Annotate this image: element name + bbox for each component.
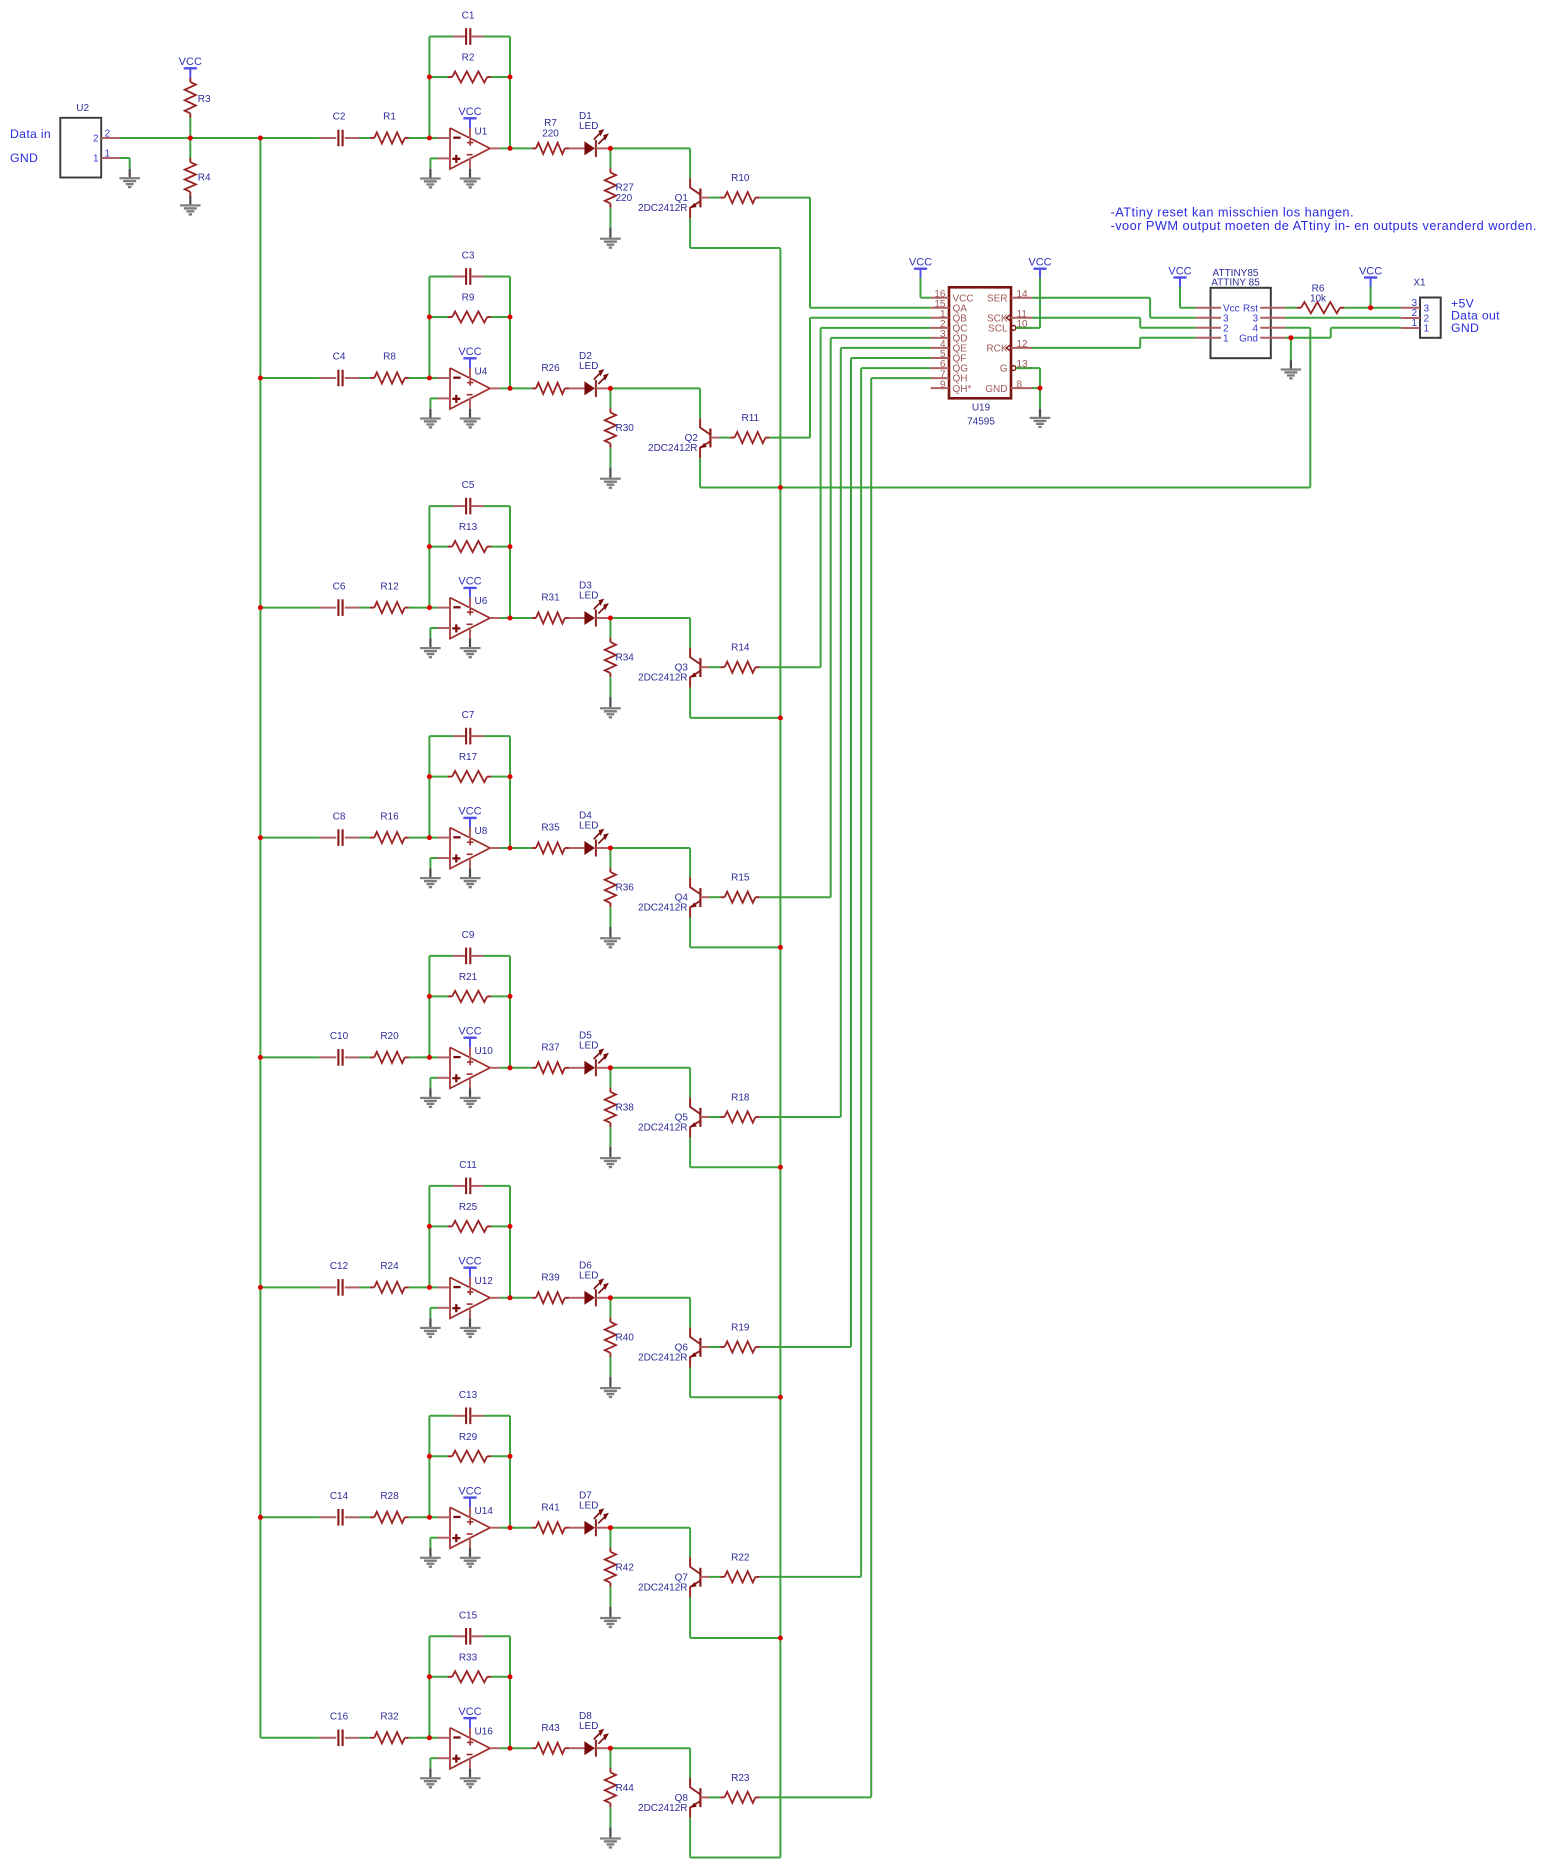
node feedback left U10	[427, 994, 432, 999]
pin 12 RCK U19	[986, 339, 1032, 355]
capacitor C1	[429, 11, 510, 45]
capacitor C9	[429, 930, 510, 964]
wire feedback right rail	[509, 736, 511, 848]
wire non-inverting input to ground	[430, 1758, 437, 1777]
resistor R43	[532, 1723, 569, 1754]
wire R6 to X1 pin3	[1371, 307, 1401, 309]
svg-text:U19: U19	[972, 403, 991, 414]
svg-text:R10: R10	[731, 173, 750, 184]
op-amp U10	[438, 1046, 501, 1089]
ground below R4	[180, 204, 201, 215]
wire R15 to shift register column	[760, 338, 931, 897]
svg-text:R44: R44	[616, 1783, 635, 1794]
wire non-inverting input to ground	[430, 1538, 437, 1557]
wire Q6 base to R19	[709, 1346, 720, 1348]
resistor R31	[532, 593, 569, 624]
ground at op-amp power	[460, 1097, 481, 1108]
wire R10 to shift register column	[760, 198, 931, 308]
svg-text:R25: R25	[459, 1202, 478, 1213]
wire Q4 emitter	[690, 918, 780, 948]
svg-text:VCC: VCC	[1028, 257, 1051, 269]
node emitter bus stage 3	[778, 715, 783, 720]
wire cap to R12	[359, 607, 370, 609]
svg-text:VCC: VCC	[458, 1256, 481, 1268]
wire op-amp V- pin to ground	[469, 1548, 471, 1557]
capacitor C15	[429, 1610, 510, 1644]
svg-text:U2: U2	[76, 103, 89, 114]
resistor R23	[720, 1773, 759, 1803]
wire non-inverting input to ground	[430, 1078, 437, 1097]
resistor R10	[720, 173, 759, 203]
wire LED to Q3 collector	[610, 618, 690, 648]
wire R27 to ground	[609, 208, 611, 238]
wire input stage 7	[260, 1516, 319, 1518]
node input bus stage 4	[258, 835, 263, 840]
wire op-amp V- pin to ground	[469, 1088, 471, 1097]
LED D5	[569, 1030, 609, 1076]
wire SCK to ATtiny pin2	[1032, 318, 1196, 328]
wire op-amp output	[500, 387, 531, 389]
svg-text:R23: R23	[731, 1773, 750, 1784]
op-amp U8	[438, 826, 501, 869]
svg-text:2DC2412R: 2DC2412R	[638, 1352, 687, 1363]
wire R4 to ground	[189, 196, 191, 205]
capacitor C3	[429, 251, 510, 285]
svg-text:R30: R30	[616, 423, 635, 434]
op-amp U16	[438, 1726, 501, 1769]
svg-text:C2: C2	[333, 112, 346, 123]
node feedback right U8	[508, 774, 513, 779]
svg-text:2DC2412R: 2DC2412R	[638, 1122, 687, 1133]
node inverting input U14	[427, 1515, 432, 1520]
wire R28 to inverting input	[409, 1516, 438, 1518]
wire non-inverting input to ground	[430, 1308, 437, 1327]
transistor Q3	[638, 648, 709, 688]
wire op-amp output	[500, 1067, 531, 1069]
connector U2	[60, 103, 119, 178]
wire Q7 base to R22	[709, 1576, 720, 1578]
capacitor C10	[320, 1031, 360, 1066]
ground at op-amp power	[460, 1777, 481, 1788]
svg-text:R3: R3	[198, 94, 211, 105]
svg-text:RCK: RCK	[986, 344, 1007, 355]
wire U19 GND to ground	[1032, 388, 1040, 417]
svg-text:R33: R33	[459, 1652, 478, 1663]
wire op-amp V- pin to ground	[469, 638, 471, 647]
node output U8	[508, 846, 513, 851]
svg-text:R42: R42	[616, 1562, 635, 1573]
svg-text:220: 220	[616, 193, 633, 204]
wire R19 to shift register column	[760, 358, 931, 1347]
svg-text:R22: R22	[731, 1552, 750, 1563]
resistor R44	[605, 1748, 634, 1807]
svg-text:X1: X1	[1413, 278, 1426, 289]
svg-text:C1: C1	[462, 11, 475, 22]
svg-text:C12: C12	[330, 1261, 349, 1272]
transistor Q8	[638, 1778, 709, 1818]
wire op-amp V- pin to ground	[469, 868, 471, 877]
svg-text:R12: R12	[380, 581, 399, 592]
wire RCK to ATtiny pin1	[1032, 338, 1196, 348]
wire R40 to ground	[609, 1357, 611, 1387]
svg-text:1: 1	[1411, 318, 1417, 329]
pin 5 QF U19	[931, 349, 967, 364]
wire feedback right rail	[509, 956, 511, 1068]
wire Q1 emitter	[690, 218, 780, 248]
resistor R29	[429, 1432, 510, 1462]
svg-text:U12: U12	[475, 1276, 494, 1287]
label Data in	[10, 127, 51, 141]
power VCC at U4	[458, 346, 481, 368]
capacitor C2	[320, 112, 360, 147]
IC U19 74595	[949, 287, 1011, 427]
svg-text:VCC: VCC	[458, 1485, 481, 1497]
wire R14 to shift register column	[760, 328, 931, 667]
svg-text:2DC2412R: 2DC2412R	[648, 443, 697, 454]
svg-text:C11: C11	[459, 1160, 477, 1171]
pin 9 QH* U19	[931, 379, 972, 395]
node cathode D6	[608, 1295, 613, 1300]
svg-text:R9: R9	[462, 293, 475, 304]
power VCC at R3	[179, 56, 202, 78]
pin 2 X1	[1401, 308, 1430, 324]
node feedback left U6	[427, 544, 432, 549]
pin 2 label U2	[105, 128, 111, 139]
svg-text:U16: U16	[475, 1726, 494, 1737]
svg-text:VCC: VCC	[458, 1026, 481, 1038]
ground below R40	[600, 1387, 621, 1398]
svg-text:R20: R20	[380, 1031, 399, 1042]
wire input stage 3	[260, 607, 319, 609]
wire feedback right rail	[509, 277, 511, 389]
wire R32 to inverting input	[409, 1737, 438, 1739]
wire feedback left rail	[428, 277, 430, 379]
svg-text:C4: C4	[333, 352, 346, 363]
node feedback left U8	[427, 774, 432, 779]
wire G to GND pin	[1016, 368, 1040, 388]
node input bus stage 3	[258, 605, 263, 610]
svg-text:8: 8	[1017, 379, 1023, 390]
pin 2 QC U19	[931, 319, 968, 334]
pin 1 QB U19	[931, 309, 968, 324]
wire feedback left rail	[428, 1636, 430, 1738]
wire LED to Q2 collector	[610, 388, 700, 418]
wire input stage 5	[260, 1056, 319, 1058]
node inverting input U10	[427, 1055, 432, 1060]
wire U2 pin1 to ground	[120, 158, 130, 177]
svg-text:C8: C8	[333, 811, 346, 822]
svg-text:SER: SER	[987, 293, 1008, 304]
wire emitter bus vertical	[690, 248, 780, 1858]
svg-text:1: 1	[1424, 324, 1430, 335]
resistor R42	[605, 1528, 634, 1587]
wire Q3 base to R14	[709, 666, 720, 668]
node output U14	[508, 1525, 513, 1530]
wire R3 to node	[189, 118, 191, 139]
resistor R24	[370, 1261, 409, 1293]
wire LED to Q6 collector	[610, 1298, 690, 1328]
node inverting input U4	[427, 376, 432, 381]
wire Q3 emitter	[690, 688, 780, 718]
svg-text:2DC2412R: 2DC2412R	[638, 1803, 687, 1814]
ground at op-amp power	[460, 1557, 481, 1568]
svg-text:R32: R32	[380, 1712, 399, 1723]
resistor R28	[370, 1491, 409, 1523]
svg-text:R19: R19	[731, 1322, 750, 1333]
wire input stage 2	[260, 377, 319, 379]
svg-text:14: 14	[1017, 289, 1029, 300]
svg-text:VCC: VCC	[1168, 265, 1191, 277]
svg-text:LED: LED	[579, 1040, 598, 1051]
capacitor C11	[429, 1160, 510, 1194]
node R3 R4 divider	[188, 136, 193, 141]
node cathode D4	[608, 846, 613, 851]
svg-text:R16: R16	[380, 811, 399, 822]
ground at op-amp power	[460, 877, 481, 888]
wire R20 to inverting input	[409, 1056, 438, 1058]
resistor R39	[532, 1272, 569, 1303]
pin 14 SER U19	[987, 289, 1032, 304]
svg-text:C16: C16	[330, 1712, 349, 1723]
wire feedback left rail	[428, 1416, 430, 1518]
node output U1	[508, 146, 513, 151]
wire R30 to ground	[609, 448, 611, 478]
wire R1 to inverting input	[409, 137, 438, 139]
wire feedback right rail	[509, 506, 511, 618]
wire ATtiny Gnd to X1 pin1 and ground	[1285, 328, 1401, 369]
wire Q5 base to R18	[709, 1116, 720, 1118]
resistor R34	[605, 618, 634, 677]
pin 6 QG U19	[931, 359, 969, 375]
wire op-amp output	[500, 1297, 531, 1299]
svg-text:R2: R2	[462, 53, 475, 64]
wire feedback left rail	[428, 956, 430, 1058]
svg-text:LED: LED	[579, 361, 598, 372]
pin 8 GND U19	[985, 379, 1032, 395]
capacitor C6	[320, 581, 360, 616]
resistor R3	[185, 78, 211, 118]
node inverting input U8	[427, 835, 432, 840]
wire Q2 emitter	[700, 458, 780, 487]
power VCC at U1	[458, 106, 481, 128]
svg-text:C5: C5	[462, 480, 475, 491]
svg-text:-voor PWM output moeten de ATt: -voor PWM output moeten de ATtiny in- en…	[1111, 218, 1537, 233]
wire cap to R20	[359, 1056, 370, 1058]
node emitter bus stage 2	[778, 485, 783, 490]
node input bus stage 7	[258, 1515, 263, 1520]
svg-text:VCC: VCC	[1359, 265, 1382, 277]
transistor Q4	[638, 878, 709, 918]
svg-text:R21: R21	[459, 972, 478, 983]
svg-text:R7: R7	[544, 118, 557, 129]
pin 3 X1	[1401, 298, 1430, 314]
LED D4	[569, 811, 609, 857]
wire Q5 emitter	[690, 1138, 780, 1168]
svg-text:R39: R39	[541, 1272, 560, 1283]
svg-text:VCC: VCC	[458, 1706, 481, 1718]
pin Rst ATtiny right	[1243, 303, 1285, 314]
capacitor C5	[429, 480, 510, 514]
label GND out	[1451, 321, 1479, 335]
wire feedback right rail	[509, 37, 511, 149]
pin Vcc ATtiny left	[1196, 303, 1239, 314]
node emitter bus stage 7	[778, 1636, 783, 1641]
svg-text:LED: LED	[579, 1721, 598, 1732]
label GND	[10, 151, 38, 165]
node output U6	[508, 616, 513, 621]
wire op-amp output	[500, 617, 531, 619]
resistor R1	[370, 112, 409, 144]
wire input stage 6	[260, 1286, 319, 1288]
node feedback right U14	[508, 1454, 513, 1459]
node feedback right U16	[508, 1674, 513, 1679]
power VCC at R6	[1359, 265, 1382, 307]
power VCC at U19 SCL	[1028, 257, 1051, 328]
resistor R41	[532, 1502, 569, 1533]
transistor Q5	[638, 1098, 709, 1138]
svg-text:R38: R38	[616, 1102, 635, 1113]
node output U10	[508, 1065, 513, 1070]
ground at non-inverting input	[420, 1557, 441, 1568]
wire op-amp V- pin to ground	[469, 1769, 471, 1778]
LED D2	[569, 351, 609, 397]
transistor Q2	[648, 418, 719, 458]
pin 3 ATtiny left	[1196, 313, 1229, 324]
op-amp U14	[438, 1506, 501, 1549]
svg-text:GND: GND	[1451, 321, 1479, 335]
wire R42 to ground	[609, 1587, 611, 1617]
wire feedback right rail	[509, 1636, 511, 1748]
svg-text:U4: U4	[475, 367, 488, 378]
resistor R16	[370, 811, 409, 843]
node inverting input U1	[427, 136, 432, 141]
svg-text:R36: R36	[616, 883, 635, 894]
resistor R30	[605, 388, 634, 447]
svg-text:GND: GND	[985, 384, 1007, 395]
svg-text:C3: C3	[462, 251, 475, 262]
ground below ATtiny	[1281, 368, 1302, 379]
resistor R19	[720, 1322, 759, 1352]
svg-text:QH*: QH*	[953, 384, 972, 395]
pin 3 ATtiny right	[1252, 313, 1285, 324]
power VCC at U8	[458, 806, 481, 828]
svg-text:C7: C7	[462, 710, 475, 721]
wire R44 to ground	[609, 1807, 611, 1837]
svg-text:SCL: SCL	[988, 324, 1008, 335]
pin 1 label U2	[105, 148, 111, 159]
svg-text:R11: R11	[741, 413, 759, 424]
wire R12 to inverting input	[409, 607, 438, 609]
resistor R20	[370, 1031, 409, 1063]
svg-text:R18: R18	[731, 1092, 750, 1103]
wire Q7 emitter	[690, 1597, 780, 1638]
svg-text:2DC2412R: 2DC2412R	[638, 903, 687, 914]
svg-text:U6: U6	[475, 596, 488, 607]
svg-text:GND: GND	[10, 151, 38, 165]
ground at op-amp power	[460, 417, 481, 428]
svg-text:U8: U8	[475, 826, 488, 837]
svg-text:R29: R29	[459, 1432, 478, 1443]
note text	[1111, 205, 1537, 233]
wire Q2 base to R11	[719, 437, 730, 439]
ground at non-inverting input	[420, 1777, 441, 1788]
wire feedback right rail	[509, 1186, 511, 1298]
svg-text:R35: R35	[541, 823, 560, 834]
ground below R38	[600, 1157, 621, 1168]
svg-text:R40: R40	[616, 1332, 635, 1343]
pin 4 QE U19	[931, 339, 968, 355]
resistor R8	[370, 352, 409, 384]
resistor R26	[532, 363, 569, 394]
ground below R44	[600, 1837, 621, 1848]
svg-text:G: G	[1000, 364, 1008, 375]
wire R38 to ground	[609, 1127, 611, 1157]
node feedback left U16	[427, 1674, 432, 1679]
svg-text:R1: R1	[383, 112, 396, 123]
svg-text:2DC2412R: 2DC2412R	[638, 673, 687, 684]
node cathode D7	[608, 1525, 613, 1530]
node output U12	[508, 1295, 513, 1300]
resistor R12	[370, 581, 409, 613]
ground at non-inverting input	[420, 877, 441, 888]
wire LED to Q1 collector	[610, 148, 690, 178]
node feedback left U12	[427, 1224, 432, 1229]
node input bus stage 2	[258, 376, 263, 381]
wire cap to R24	[359, 1286, 370, 1288]
svg-text:C15: C15	[459, 1610, 478, 1621]
pin 4 ATtiny right	[1252, 323, 1285, 334]
svg-text:R43: R43	[541, 1723, 560, 1734]
wire op-amp output	[500, 1527, 531, 1529]
ground below U19	[1030, 417, 1051, 428]
op-amp U12	[438, 1276, 501, 1319]
node feedback left U1	[427, 75, 432, 80]
svg-text:R13: R13	[459, 522, 478, 533]
resistor R14	[720, 643, 759, 673]
capacitor C7	[429, 710, 510, 744]
wire cap to R1	[359, 137, 370, 139]
wire R8 to inverting input	[409, 377, 438, 379]
node cathode D1	[608, 146, 613, 151]
svg-text:R28: R28	[380, 1491, 399, 1502]
svg-text:C9: C9	[462, 930, 475, 941]
svg-text:1: 1	[1223, 333, 1229, 344]
transistor Q6	[638, 1328, 709, 1368]
wire Q8 emitter	[690, 1818, 780, 1858]
svg-text:R27: R27	[616, 182, 635, 193]
power VCC at U14	[458, 1485, 481, 1507]
resistor R27	[605, 148, 634, 207]
node output U4	[508, 386, 513, 391]
ground at op-amp power	[460, 177, 481, 188]
node R6 VCC X1	[1368, 305, 1373, 310]
power VCC at U10	[458, 1026, 481, 1048]
resistor R18	[720, 1092, 759, 1122]
svg-text:ATTINY 85: ATTINY 85	[1211, 278, 1260, 289]
svg-text:74595: 74595	[967, 417, 995, 428]
wire LED to Q7 collector	[610, 1528, 690, 1558]
svg-text:VCC: VCC	[909, 257, 932, 269]
svg-text:2: 2	[93, 134, 99, 145]
connector X1	[1413, 278, 1440, 338]
svg-text:2DC2412R: 2DC2412R	[638, 203, 687, 214]
svg-text:LED: LED	[579, 591, 598, 602]
wire SCL stub	[1016, 327, 1040, 329]
resistor R36	[605, 848, 634, 907]
svg-text:U10: U10	[475, 1046, 494, 1057]
node feedback right U6	[508, 544, 513, 549]
svg-text:2DC2412R: 2DC2412R	[638, 1582, 687, 1593]
